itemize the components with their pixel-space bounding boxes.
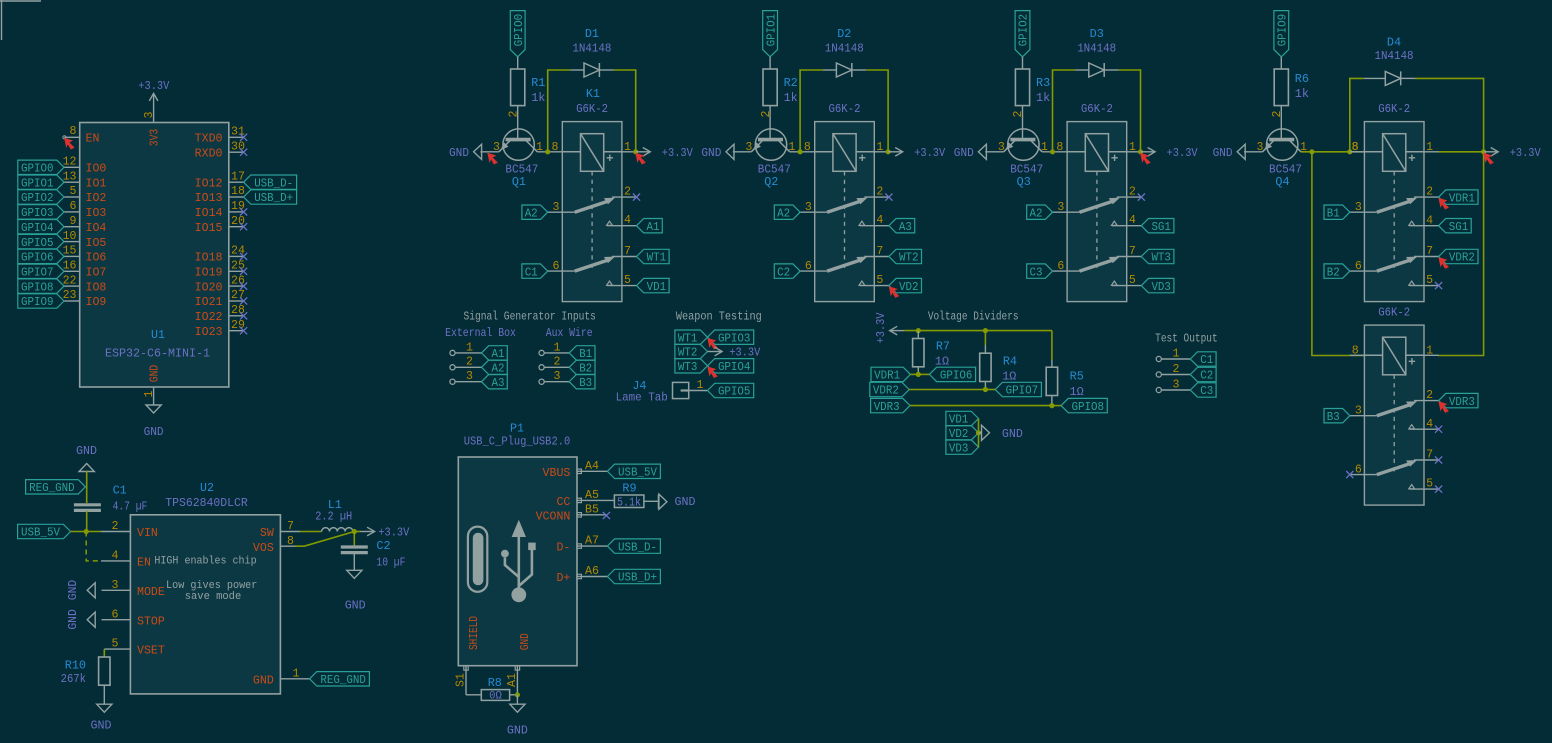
junction [545,149,550,154]
svg-text:2: 2 [876,186,883,199]
svg-text:1: 1 [1041,141,1048,154]
text Test Output [1155,332,1218,346]
global label A3 [889,219,915,234]
junction (+3.3V node) [1481,149,1486,154]
U2 pin 5 (VSET) [104,638,165,658]
svg-text:WT3: WT3 [1151,251,1171,265]
global label GPIO5 [708,383,754,398]
P1 pin root squares [464,469,582,670]
relay pin 8 stub [1350,141,1365,154]
global label A2 [774,205,800,220]
global label WT2 [889,249,922,264]
wire VSET down [103,649,105,657]
svg-text:GPIO9: GPIO9 [1276,14,1290,47]
svg-text:VCONN: VCONN [536,510,571,523]
pin number 2 [760,110,773,117]
svg-text:7: 7 [1129,245,1136,258]
svg-text:VDR1: VDR1 [874,369,900,383]
D3 labels [1077,27,1116,56]
svg-text:9: 9 [70,215,77,228]
ERC marker WT1 [708,339,717,349]
U1 pin 17 (IO12) [195,170,245,190]
global label B3 [569,375,595,390]
svg-text:3: 3 [112,579,119,592]
U1 pin 24 (IO18) [195,245,245,265]
svg-text:GPIO1: GPIO1 [21,176,54,190]
U2 reference [200,482,214,495]
pin number 1 (Q) [536,141,543,154]
junction (Q4 collector) [1309,149,1314,154]
svg-text:A5: A5 [585,489,599,502]
P1 pin B5 (VCONN) [536,503,607,523]
svg-text:4: 4 [112,550,119,563]
aux wire pin 3 [539,370,569,384]
relay pin 5 (NO B) [607,274,637,287]
wire R4 top [984,331,986,345]
junction L1 [352,529,357,534]
relay pin 3 (common A) [800,201,827,214]
svg-text:+3.3V: +3.3V [914,146,946,160]
relay dashed link [844,171,846,271]
relay pin 1 stub [874,141,889,154]
relay value G6K-2 [1378,305,1410,319]
resistor R1 body [511,57,525,140]
pin number 1 (Q4) [1300,141,1307,154]
svg-text:1Ω: 1Ω [1070,385,1084,399]
svg-text:8: 8 [552,141,559,154]
svg-text:2: 2 [1173,363,1180,376]
switch arm B [1377,461,1416,475]
U1 pin 23 (IO9) [63,289,107,309]
svg-text:+3.3V: +3.3V [662,146,694,160]
P1 reference [510,422,524,435]
svg-text:3: 3 [1173,378,1180,391]
R10 labels [61,659,86,686]
pin number 8 (K4) [1352,141,1359,154]
global label C2 [774,264,800,279]
svg-text:GPIO2: GPIO2 [1017,14,1031,47]
ground at U1 [144,402,164,440]
relay value G6K-2 [1378,102,1410,116]
global label GPIO9 [1274,11,1290,57]
no-connect [240,327,247,334]
junction VDR3 [1049,403,1054,408]
svg-text:IO14: IO14 [195,207,223,220]
svg-text:10 µF: 10 µF [376,555,405,569]
svg-text:IO15: IO15 [195,222,223,235]
svg-text:5: 5 [70,185,77,198]
no-connect [1346,471,1353,478]
svg-text:IO7: IO7 [86,267,107,280]
svg-text:Signal Generator Inputs: Signal Generator Inputs [464,310,596,324]
svg-text:IO23: IO23 [195,326,223,339]
svg-text:WT2: WT2 [899,251,919,265]
test output pin 3 [1156,378,1190,392]
pin number 3 [1257,141,1264,154]
global label A3 [482,375,508,390]
svg-text:8: 8 [804,141,811,154]
ground (STOP) [66,609,95,630]
U1 pin 16 (IO7) [63,260,107,280]
ground (R9) [658,494,695,509]
P1 pin S1 (SHIELD) [455,616,481,695]
relay pin 6 [1350,260,1377,273]
svg-text:USB_C_Plug_USB2.0: USB_C_Plug_USB2.0 [464,435,571,448]
relay pin 2 [612,186,637,199]
coil plus sign [1409,358,1415,364]
IC U2 body [130,515,280,694]
svg-text:B2: B2 [579,362,592,376]
svg-text:0Ω: 0Ω [489,691,502,703]
junction (USB gnd) [515,692,520,697]
wire collector to relay [537,151,562,153]
R6 labels [1295,72,1309,101]
global label VDR3 [1439,393,1478,408]
no-connect [240,134,247,141]
svg-text:3: 3 [466,370,473,383]
svg-text:4: 4 [1426,418,1433,431]
global label C1 [1190,352,1216,367]
svg-text:1N4148: 1N4148 [825,42,864,56]
relay pin 6 (common B) [800,260,827,273]
svg-text:8: 8 [1352,141,1359,154]
svg-text:A6: A6 [585,565,599,578]
wire collector to relay [790,151,815,153]
svg-text:D+: D+ [556,572,570,585]
svg-text:1: 1 [466,341,473,354]
svg-text:2: 2 [1012,110,1025,117]
external box pin 1 [450,341,482,355]
svg-text:B3: B3 [1327,410,1340,424]
svg-text:Q1: Q1 [512,175,526,189]
svg-text:R5: R5 [1070,370,1084,384]
power +3.3V [636,146,694,160]
junction VDR2 [983,387,988,392]
svg-text:GND: GND [66,580,80,601]
svg-text:VDR2: VDR2 [873,384,899,398]
P1 pin A7 (D-) [556,535,607,555]
svg-text:IO1: IO1 [86,177,107,190]
svg-text:G6K-2: G6K-2 [576,102,608,116]
svg-text:12: 12 [63,156,77,169]
wire top relay pin1 to +3.3V [1438,151,1484,153]
wire D4 right [1415,78,1484,151]
wire S1-R8 [466,694,481,696]
ground (C2) [345,570,366,612]
svg-text:18: 18 [231,185,245,198]
wire R5 drop [1051,331,1053,360]
relay coil [815,134,875,172]
svg-text:+3.3V: +3.3V [874,312,888,344]
svg-text:1k: 1k [1295,87,1309,101]
power +3.3V (dividers) [874,312,904,344]
relay pin 7 [864,245,889,258]
global label USB_D+ [244,190,297,205]
svg-text:4: 4 [876,214,883,227]
no-connect [1435,456,1442,463]
relay pin 1 stub [1424,141,1439,154]
svg-text:IO5: IO5 [86,237,107,250]
svg-text:GND: GND [149,365,162,383]
relay pin 4 (NO A) [1111,214,1141,227]
svg-text:+3.3V: +3.3V [138,79,170,93]
svg-text:IO2: IO2 [86,192,107,205]
pin number 3 [745,141,752,154]
wire R10-GND [103,685,105,704]
global label GPIO2 [1015,11,1031,57]
text Weapon Testing [676,310,762,324]
svg-text:GND: GND [519,633,532,650]
U2 graphic text 1 [154,556,256,568]
svg-text:8: 8 [70,125,77,138]
global label GPIO4 [18,220,64,235]
svg-text:D4: D4 [1387,36,1401,50]
USB trident glyph [501,521,536,602]
svg-text:IO20: IO20 [195,281,223,294]
IC U1 body [80,123,229,388]
svg-text:3: 3 [554,370,561,383]
svg-text:GPIO7: GPIO7 [21,266,54,280]
svg-text:C2: C2 [376,539,390,553]
U1 pin 18 (IO13) [195,185,245,205]
power +3.3V (block4) [1484,146,1542,160]
svg-text:VIN: VIN [137,527,158,540]
svg-text:GND: GND [1002,427,1023,441]
svg-text:1: 1 [1173,347,1180,360]
U1 pin 1 (GND) [143,365,161,402]
junction at +3.3V [886,149,891,154]
no-connect [240,268,247,275]
switch arm A [827,198,866,212]
relay pin 3 (common A) [1053,201,1080,214]
relay pin 6 [1350,464,1377,477]
svg-text:GND: GND [449,146,469,160]
svg-text:R2: R2 [784,76,798,90]
no-connect pin 2 [633,194,640,201]
svg-text:USB_5V: USB_5V [618,466,658,480]
svg-text:GPIO7: GPIO7 [1006,384,1039,398]
svg-text:13: 13 [63,170,77,183]
diode D3 (1N4148) [1075,63,1119,77]
svg-text:3V3: 3V3 [149,129,162,147]
global label A2 [482,360,508,375]
relay pin 8 stub [1350,345,1365,358]
global label C1 [522,264,548,279]
svg-text:3: 3 [1257,141,1264,154]
svg-text:USB_D+: USB_D+ [618,571,657,585]
wire R5-GPIO8 [1052,405,1061,407]
text External Box [445,326,516,340]
ground (emitter) [449,144,482,160]
svg-text:USB_D-: USB_D- [254,176,293,190]
no-connect [240,149,247,156]
svg-text:Voltage Dividers: Voltage Dividers [928,310,1019,324]
svg-text:7: 7 [624,245,631,258]
global label USB_D+ (P1) [607,569,660,584]
K1 reference [586,87,600,101]
svg-text:External Box: External Box [445,326,516,340]
svg-text:CC: CC [556,496,570,509]
coil plus sign [607,155,613,161]
ground (P1) [507,695,528,738]
wire divider top [904,330,1052,332]
svg-text:C1: C1 [1200,353,1213,367]
pin number 1 (Q) [1041,141,1048,154]
global label GPIO1 [18,175,64,190]
svg-text:SHIELD: SHIELD [468,616,481,650]
aux wire pin 2 [539,356,569,370]
ERC marker [1439,402,1448,412]
svg-text:MODE: MODE [137,586,165,599]
junction R7 top [916,328,921,333]
svg-text:3: 3 [998,141,1005,154]
power +3.3V (WT2) [708,346,762,360]
text Aux Wire [546,326,593,340]
transistor Q2 (BC547) [751,129,789,160]
transistor Q1 (BC547) [499,129,537,160]
svg-text:7: 7 [876,245,883,258]
svg-text:VD2: VD2 [949,427,969,441]
svg-text:D1: D1 [585,27,599,41]
U1 pin 15 (IO6) [63,245,107,265]
svg-text:GND: GND [954,146,974,160]
svg-text:R3: R3 [1036,76,1050,90]
svg-text:VD2: VD2 [899,280,919,294]
svg-text:3: 3 [1057,201,1064,214]
svg-text:22: 22 [63,274,77,287]
svg-text:A7: A7 [585,535,599,548]
global label GPIO0 [510,11,526,57]
U1 pin 6 (IO3) [64,200,106,220]
global label USB_5V (P1) [607,464,660,479]
svg-text:+3.3V: +3.3V [1510,146,1542,160]
svg-text:IO4: IO4 [86,222,107,235]
global label GPIO2 [18,190,64,205]
global label GPIO6 [929,367,975,382]
svg-text:GPIO0: GPIO0 [21,162,54,176]
junction VD [976,430,981,435]
svg-text:GPIO4: GPIO4 [718,360,751,374]
switch arm A [575,198,614,212]
svg-text:5: 5 [876,274,883,287]
svg-text:R7: R7 [936,340,950,354]
svg-text:WT3: WT3 [678,360,698,374]
wire emitter to GND [1244,151,1263,153]
U1 pin 8 (EN) [63,125,100,145]
svg-text:R10: R10 [65,659,86,673]
svg-text:SG1: SG1 [1151,220,1171,234]
wire to bottom relay pin8 [1312,152,1365,356]
resistor R5 [1046,360,1057,406]
svg-text:GND: GND [345,599,366,613]
external box pin 2 [450,356,482,370]
wire emitter to GND [480,151,499,153]
svg-text:A2: A2 [777,206,790,220]
svg-text:VDR2: VDR2 [1449,251,1475,265]
global label GPIO9 [18,294,64,309]
transistor Q3 (BC547) [1004,129,1042,160]
svg-text:5: 5 [624,274,631,287]
svg-text:7: 7 [1426,449,1433,462]
junction (D4 left node) [1347,149,1352,154]
global label VD1 [946,411,979,426]
svg-text:GPIO8: GPIO8 [1072,400,1105,414]
pin number 3 [998,141,1005,154]
svg-text:U1: U1 [151,329,165,342]
sheet frame corner [0,0,41,40]
svg-text:IO21: IO21 [195,296,223,309]
svg-text:G6K-2: G6K-2 [1378,305,1410,319]
svg-text:IO0: IO0 [86,163,107,176]
global label B2 [569,360,595,375]
svg-text:RXD0: RXD0 [195,147,223,160]
svg-text:B3: B3 [579,376,592,390]
resistor R6 body [1274,57,1288,140]
global label VDR2 [1439,249,1478,264]
svg-text:GND: GND [76,444,97,458]
svg-text:GND: GND [91,719,112,733]
svg-text:IO3: IO3 [86,207,107,220]
U2 pin 4 (EN) [101,550,151,570]
svg-text:GPIO2: GPIO2 [21,191,54,205]
global label SG1 [1439,219,1472,234]
svg-text:A3: A3 [899,220,912,234]
svg-text:IO8: IO8 [86,281,107,294]
pin number 2 [1012,110,1025,117]
svg-text:A4: A4 [585,460,599,473]
global label WT1 [675,330,708,345]
D4 labels [1375,36,1414,64]
Q2 labels [758,163,791,190]
coil plus sign [1409,155,1415,161]
svg-text:R9: R9 [622,482,636,496]
svg-text:B1: B1 [579,347,592,361]
relay K2 body [815,122,875,302]
pin number 8 [804,141,811,154]
U2 graphic text 2 [166,580,257,603]
switch arm A [1080,198,1119,212]
svg-text:Aux Wire: Aux Wire [546,326,593,340]
svg-text:6: 6 [1057,260,1064,273]
svg-text:save mode: save mode [185,591,242,603]
svg-text:G6K-2: G6K-2 [829,102,861,116]
global label VDR1 [1439,190,1478,205]
wire USB5V junction [71,531,101,533]
text Signal Generator Inputs [464,310,596,324]
svg-text:B5: B5 [585,503,599,516]
L1 labels [315,498,352,524]
global label VD2 [946,426,979,441]
svg-text:R8: R8 [488,676,502,690]
svg-text:3: 3 [143,111,156,118]
no-connect (VCONN) [603,512,610,519]
svg-text:2: 2 [1426,389,1433,402]
svg-text:ESP32-C6-MINI-1: ESP32-C6-MINI-1 [105,348,210,361]
connector J4 [673,379,708,398]
svg-text:+3.3V: +3.3V [378,526,410,540]
U1 pin 29 (IO23) [195,319,245,339]
relay pin 4 [1409,418,1439,431]
svg-text:A1: A1 [647,220,660,234]
no-connect [240,312,247,319]
no-connect pin 2 [1138,194,1145,201]
svg-text:REG_GND: REG_GND [29,481,75,495]
svg-text:1: 1 [1426,141,1433,154]
ground (R10) [91,704,112,732]
svg-text:1: 1 [624,141,631,154]
diode D1 (1N4148) [570,63,614,77]
wire collector to relays [1301,151,1365,153]
